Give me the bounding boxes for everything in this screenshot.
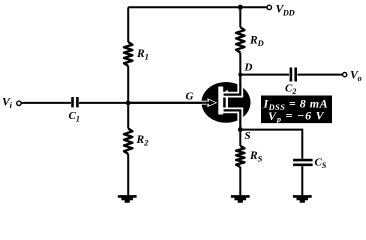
transistor Q1 channel bar (white) [226,91,228,114]
transistor Q1 gate lead halo [200,101,207,105]
transistor Q1 gate arrow halo [207,98,217,107]
ground under CS [293,195,312,203]
svg-text:G: G [186,91,194,103]
info box IDSS VP [261,96,332,124]
terminal Vi circle [17,101,21,105]
ground under R2 [118,195,137,203]
wire left vertical (R1 branch) [127,7,129,103]
terminal VDD circle [267,5,271,9]
node junction top (drain branch tap) [238,5,243,10]
svg-text:S: S [245,130,251,142]
transistor Q1 drain lead [224,75,241,95]
wire C2 to Vo [298,74,343,76]
wire CS to ground [301,166,303,195]
transistor Q1 source lead [224,110,241,129]
ground under RS [231,195,250,203]
node junction gate bus [126,101,131,106]
capacitor C2 [290,68,293,82]
wire S to RS [239,130,241,196]
wire D to C2 [240,74,289,76]
svg-text:Vp = −6 V: Vp = −6 V [268,109,325,125]
transistor Q1 gate bar (white) [218,87,223,115]
node D junction [238,73,242,77]
terminal Vo circle [343,73,347,77]
resistor RS [236,146,244,167]
transistor Q1 gate lead [128,102,210,104]
node S junction [238,127,243,132]
transistor Q1 drain lead halo [223,80,241,95]
capacitor CS [293,159,313,162]
transistor Q1 JFET body [202,82,251,123]
resistor R1 [124,42,132,66]
transistor Q1 gate arrowhead [209,100,216,106]
wire R2 branch [127,103,129,196]
transistor Q1 source lead halo [223,110,241,125]
svg-text:D: D [244,62,253,74]
wire input to C1 [21,102,71,104]
capacitor C1 [71,97,74,107]
resistor RD [236,27,244,52]
wire C1 to gate bus [79,102,210,104]
wire S to CS [240,130,302,159]
wire right vertical RD branch [239,7,241,74]
resistor R2 [124,129,132,155]
wire top rail [128,6,267,8]
